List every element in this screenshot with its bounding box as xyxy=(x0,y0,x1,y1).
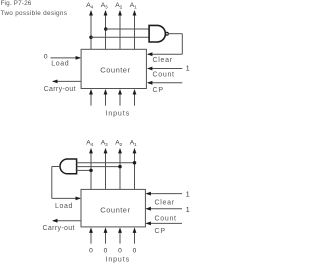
junction on A2 (bottom design) xyxy=(118,165,122,169)
svg-text:0: 0 xyxy=(133,247,137,254)
svg-text:Two possible designs: Two possible designs xyxy=(1,10,68,17)
svg-text:CP: CP xyxy=(155,228,166,235)
junction on A1 (bottom design) xyxy=(133,161,137,165)
svg-text:Counter: Counter xyxy=(100,206,130,215)
wire A4 to G1 input 2 xyxy=(91,36,150,38)
wire parallel input 1 (top design) xyxy=(89,89,93,106)
wire Count input (bottom design) xyxy=(145,207,182,211)
node A2 (output, bottom design) xyxy=(115,140,122,190)
svg-text:0: 0 xyxy=(118,247,122,254)
svg-text:A1: A1 xyxy=(130,2,137,10)
svg-text:1: 1 xyxy=(186,207,190,214)
wire Count input (top design) xyxy=(147,67,182,71)
wire Clear input (bottom design) xyxy=(145,192,182,196)
junction on A3 xyxy=(104,27,108,31)
svg-text:Counter: Counter xyxy=(100,66,130,75)
counter U2 xyxy=(81,189,145,227)
svg-text:Carry-out: Carry-out xyxy=(44,86,76,93)
svg-text:A4: A4 xyxy=(86,140,93,148)
svg-text:Inputs: Inputs xyxy=(106,111,130,118)
wire parallel input 3 (top design) xyxy=(118,89,122,106)
wire parallel input 4 (top design) xyxy=(133,89,137,106)
node A2 (output, top design) xyxy=(115,2,122,49)
svg-text:A4: A4 xyxy=(86,2,93,10)
node A1 (output, top design) xyxy=(130,2,137,49)
svg-text:0: 0 xyxy=(104,247,108,254)
wire Load input (top design) xyxy=(51,56,82,60)
wire G2 input 3 to A4 xyxy=(77,169,91,171)
wire G2 input 2 to A2 xyxy=(77,166,120,168)
counter U1 xyxy=(81,49,146,88)
svg-text:Carry-out: Carry-out xyxy=(43,225,75,232)
wire parallel input 2 with 0 (bottom design) xyxy=(104,227,108,254)
svg-text:0: 0 xyxy=(89,247,93,254)
wire parallel input 3 with 0 (bottom design) xyxy=(118,227,122,254)
svg-text:Load: Load xyxy=(51,60,69,67)
wire Carry-out (bottom design) xyxy=(52,219,81,223)
svg-text:Count: Count xyxy=(155,215,177,222)
node A1 (output, bottom design) xyxy=(130,140,137,190)
svg-text:Clear: Clear xyxy=(153,57,173,64)
svg-text:Fig. P7-26: Fig. P7-26 xyxy=(1,0,32,7)
svg-text:A3: A3 xyxy=(101,2,108,10)
wire A3 to G1 input 1 xyxy=(106,28,150,30)
node A4 (output, bottom design) xyxy=(86,140,93,190)
svg-text:Load: Load xyxy=(55,203,73,210)
svg-text:Inputs: Inputs xyxy=(106,256,130,263)
svg-text:CP: CP xyxy=(153,87,164,94)
svg-text:0: 0 xyxy=(44,54,48,61)
wire G2 output to Load xyxy=(52,167,81,201)
wire G2 input 1 to A1 xyxy=(77,162,135,164)
wire parallel input 2 (top design) xyxy=(104,89,108,106)
nand gate G1 xyxy=(149,25,168,42)
wire parallel input 4 with 0 (bottom design) xyxy=(133,227,137,254)
wire G1 output feedback to Clear xyxy=(147,34,182,56)
svg-text:A2: A2 xyxy=(115,140,122,148)
svg-text:Clear: Clear xyxy=(155,199,175,206)
junction on A4 xyxy=(89,36,93,40)
node A3 (output, top design) xyxy=(101,2,108,49)
svg-text:1: 1 xyxy=(186,191,190,198)
svg-text:Count: Count xyxy=(153,71,175,78)
junction on A4 (bottom design) xyxy=(89,169,93,173)
svg-text:A1: A1 xyxy=(130,140,137,148)
wire CP input (bottom design) xyxy=(145,222,182,226)
svg-text:A3: A3 xyxy=(101,140,108,148)
wire parallel input 1 with 0 (bottom design) xyxy=(89,227,93,254)
wire CP input (top design) xyxy=(147,81,182,85)
svg-text:1: 1 xyxy=(186,66,190,73)
svg-text:A2: A2 xyxy=(115,2,122,10)
wire Carry-out (top design) xyxy=(52,80,81,84)
node A3 (output, bottom design) xyxy=(101,140,108,190)
node A4 (output, top design) xyxy=(86,2,93,49)
and gate G2 (points left) xyxy=(60,159,77,174)
